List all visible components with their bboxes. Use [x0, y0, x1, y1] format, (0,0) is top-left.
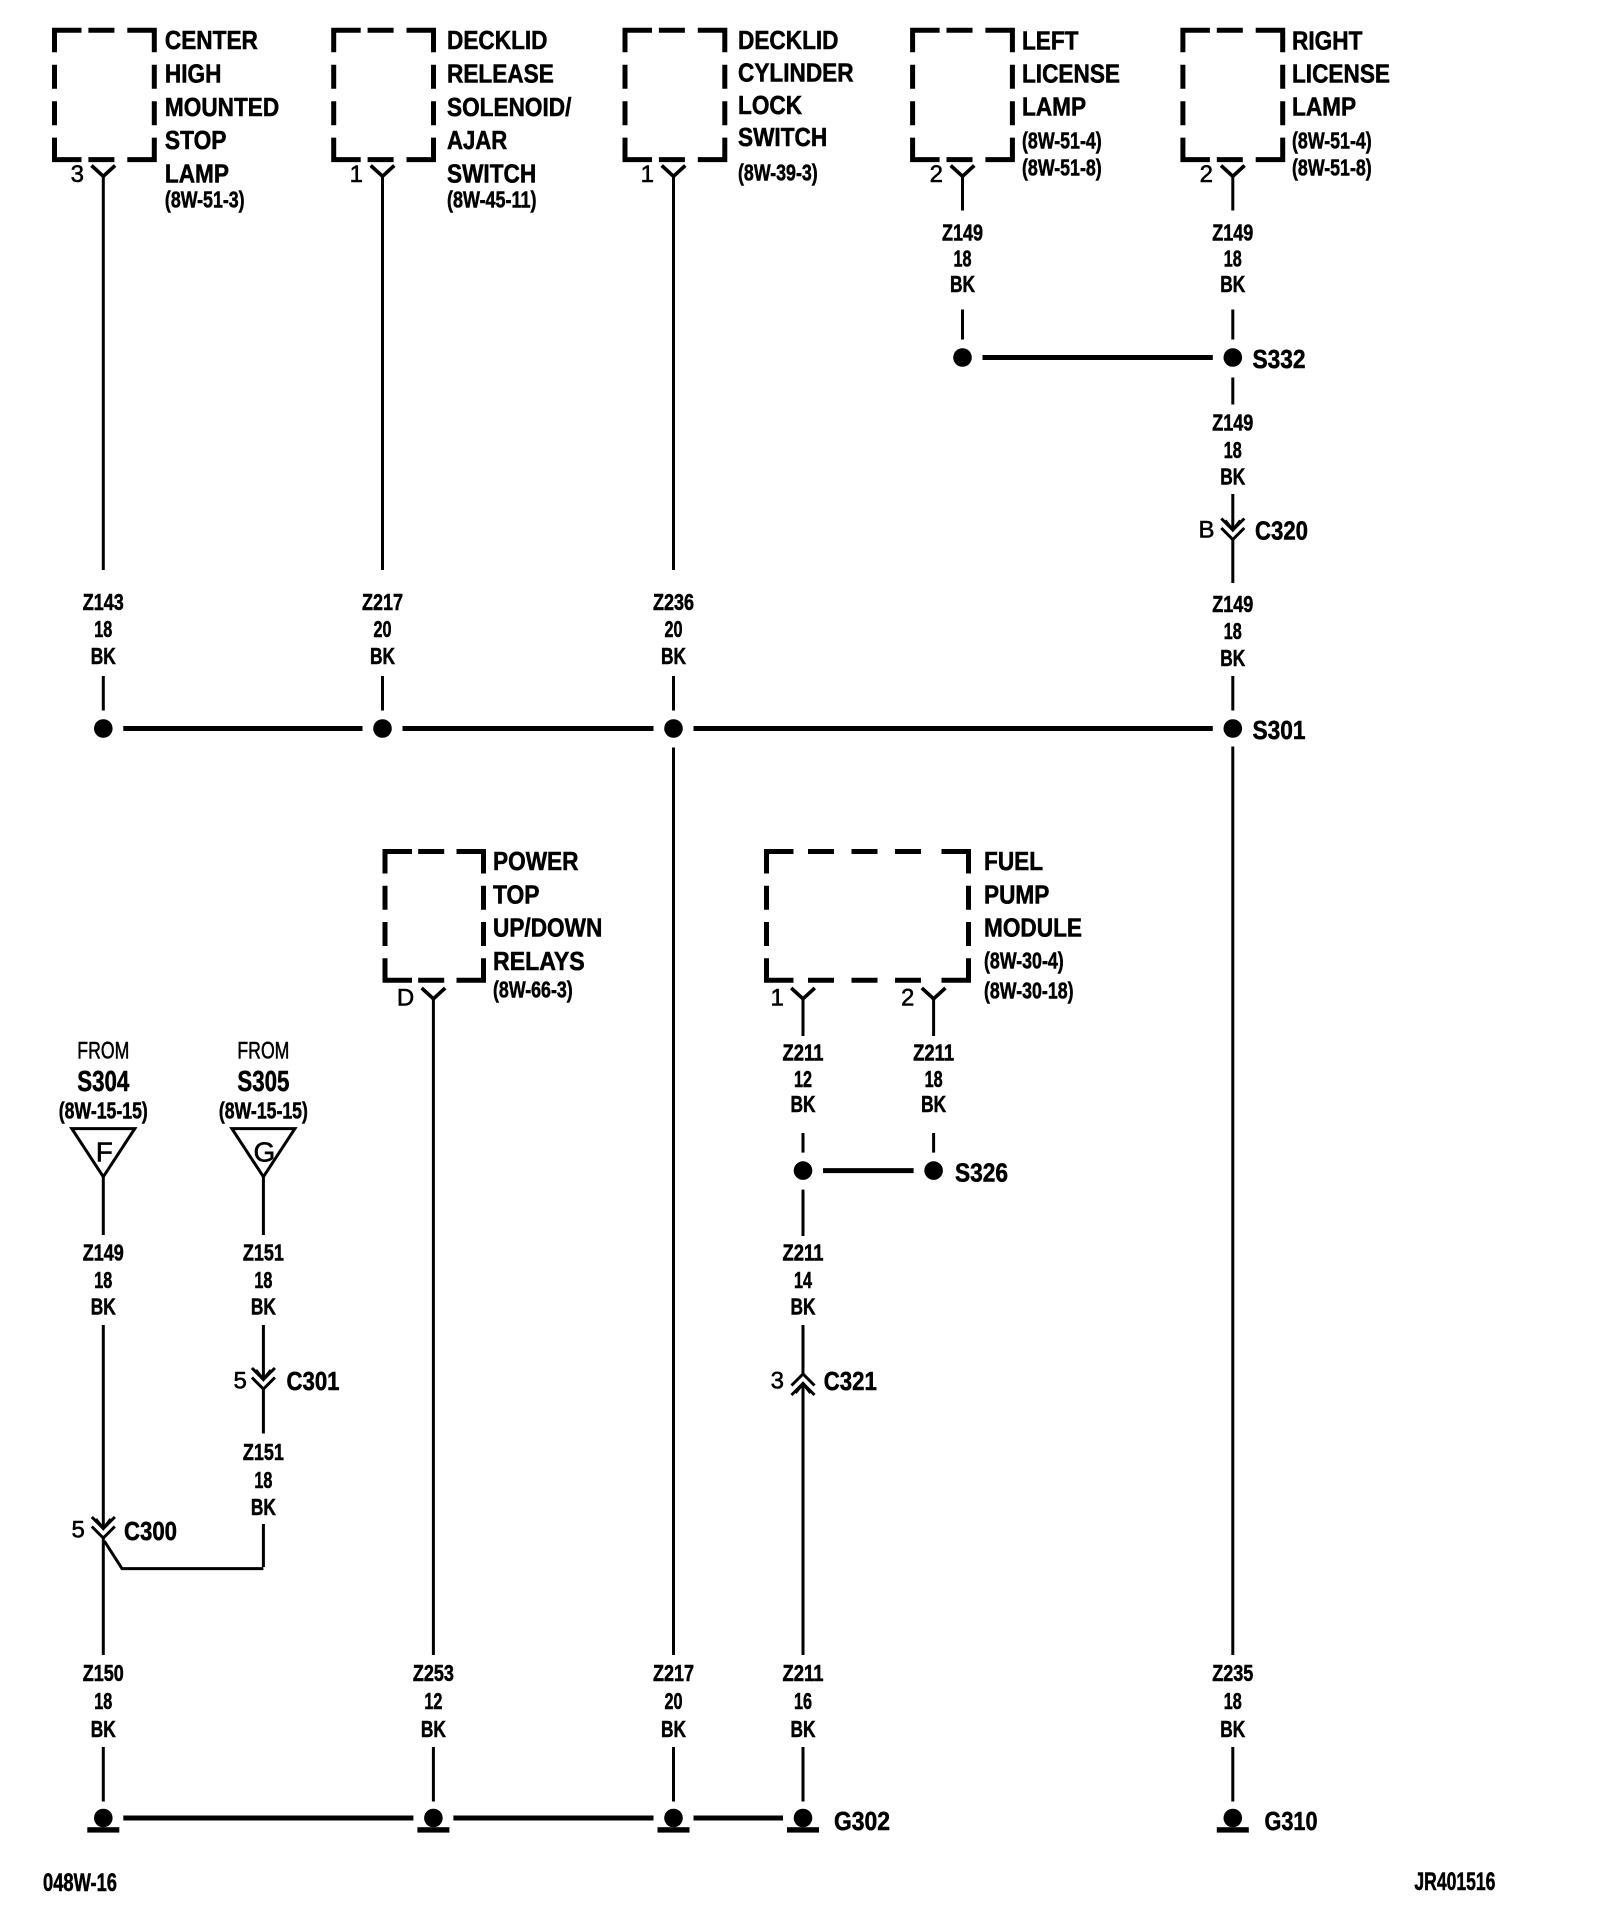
svg-text:(8W-51-8): (8W-51-8)	[1292, 155, 1372, 181]
svg-text:FROM: FROM	[237, 1038, 289, 1065]
svg-text:BK: BK	[661, 1716, 686, 1742]
svg-text:C300: C300	[124, 1516, 177, 1546]
svg-text:LAMP: LAMP	[1022, 92, 1086, 122]
svg-text:18: 18	[94, 616, 112, 642]
ground dot G302 at Z253	[424, 1809, 443, 1828]
ground dot G302 at Z211	[794, 1809, 813, 1828]
svg-text:2: 2	[930, 161, 943, 188]
component box: DECKLID CYLINDER LOCK SWITCH	[625, 30, 725, 159]
svg-text:MODULE: MODULE	[984, 913, 1082, 943]
junction dot S301 at Z217	[373, 719, 392, 738]
svg-text:18: 18	[254, 1467, 272, 1493]
svg-text:LICENSE: LICENSE	[1292, 59, 1390, 89]
svg-text:BK: BK	[1220, 271, 1245, 297]
svg-text:Z151: Z151	[243, 1240, 284, 1266]
svg-text:BK: BK	[791, 1091, 816, 1117]
off-page connector triangle F	[72, 1129, 135, 1177]
svg-text:BK: BK	[661, 643, 686, 669]
svg-text:Z150: Z150	[83, 1660, 124, 1686]
junction dot S301 at Z236	[664, 719, 683, 738]
svg-text:3: 3	[771, 1368, 784, 1395]
svg-text:CENTER: CENTER	[165, 25, 258, 55]
wire Z217 to ground G302	[672, 1747, 675, 1802]
svg-text:PUMP: PUMP	[984, 879, 1049, 909]
component box: RIGHT LICENSE LAMP	[1183, 30, 1283, 159]
svg-text:LAMP: LAMP	[165, 159, 229, 189]
svg-text:DECKLID: DECKLID	[447, 25, 548, 55]
svg-text:S326: S326	[955, 1158, 1008, 1188]
wire Z211 14 below S326	[802, 1190, 805, 1236]
svg-text:Z211: Z211	[783, 1660, 824, 1686]
wire Z211 18 to splice S326	[932, 1133, 935, 1153]
wire Z149 into S301	[1231, 676, 1234, 711]
svg-text:1: 1	[770, 985, 783, 1012]
ground dot G302 at Z150	[94, 1809, 113, 1828]
connector C300	[96, 1519, 111, 1529]
wire Z149 to splice S332 right	[1231, 310, 1234, 340]
svg-text:(8W-51-3): (8W-51-3)	[165, 187, 245, 213]
component box: LEFT LICENSE LAMP	[913, 30, 1013, 159]
svg-text:5: 5	[234, 1368, 247, 1395]
splice bus wire S301 segment 1	[123, 726, 362, 731]
svg-text:Z235: Z235	[1212, 1660, 1253, 1686]
wire Z211 to ground G302	[802, 1747, 805, 1802]
svg-text:18: 18	[1224, 1688, 1242, 1714]
svg-text:Z149: Z149	[1212, 591, 1253, 617]
ground dot G302 at Z217	[664, 1809, 683, 1828]
ground dot G310	[1224, 1809, 1243, 1828]
wire Z211 14 into connector C321	[802, 1325, 805, 1374]
svg-text:Z211: Z211	[913, 1040, 954, 1066]
connector C321	[796, 1384, 811, 1394]
svg-text:SWITCH: SWITCH	[447, 159, 536, 189]
svg-text:HIGH: HIGH	[165, 58, 222, 88]
svg-text:JR401516: JR401516	[1414, 1868, 1495, 1896]
svg-text:BK: BK	[791, 1294, 816, 1320]
wire Z235 below S301 right column	[1231, 747, 1234, 1656]
svg-text:C320: C320	[1255, 516, 1308, 546]
junction dot S301 at Z143	[94, 719, 113, 738]
svg-text:B: B	[1198, 517, 1214, 544]
svg-text:LEFT: LEFT	[1022, 26, 1079, 56]
wire Z217 decklid cylinder branch below S301	[672, 748, 675, 1656]
svg-text:POWER: POWER	[493, 846, 579, 876]
wire Z149 from triangle F	[102, 1177, 105, 1235]
wire Z236 lower segment	[672, 676, 675, 711]
svg-text:G302: G302	[834, 1806, 890, 1836]
ground bus G302 segment 1	[123, 1816, 413, 1821]
svg-text:RELEASE: RELEASE	[447, 58, 554, 88]
svg-text:Z149: Z149	[942, 220, 983, 246]
junction dot at S332 right	[1224, 348, 1243, 367]
svg-text:G: G	[254, 1137, 276, 1168]
svg-text:BK: BK	[1220, 1716, 1245, 1742]
svg-text:UP/DOWN: UP/DOWN	[493, 913, 602, 943]
off-page connector triangle G	[232, 1129, 295, 1177]
component box: FUEL PUMP MODULE	[767, 852, 969, 981]
svg-text:(8W-15-15): (8W-15-15)	[59, 1098, 148, 1124]
junction dot at S332 left	[953, 348, 972, 367]
svg-text:5: 5	[72, 1517, 85, 1544]
svg-text:18: 18	[254, 1267, 272, 1293]
svg-text:(8W-15-15): (8W-15-15)	[219, 1098, 308, 1124]
ground symbol bar at Z211	[787, 1827, 819, 1832]
svg-text:AJAR: AJAR	[447, 125, 507, 155]
wire Z149 from right license lamp pin 2	[1231, 176, 1234, 210]
connector C301	[256, 1370, 271, 1380]
svg-text:S305: S305	[237, 1066, 289, 1098]
svg-text:SOLENOID/: SOLENOID/	[447, 92, 571, 122]
junction dot S301 at Z149	[1224, 719, 1243, 738]
svg-text:G310: G310	[1265, 1806, 1318, 1836]
svg-text:20: 20	[665, 616, 683, 642]
svg-text:(8W-51-4): (8W-51-4)	[1022, 128, 1102, 154]
svg-text:BK: BK	[1220, 464, 1245, 490]
svg-text:(8W-39-3): (8W-39-3)	[738, 160, 818, 186]
svg-text:(8W-30-4): (8W-30-4)	[984, 948, 1064, 974]
svg-text:RELAYS: RELAYS	[493, 946, 585, 976]
svg-text:Z149: Z149	[83, 1240, 124, 1266]
svg-text:BK: BK	[791, 1716, 816, 1742]
svg-text:048W-16: 048W-16	[43, 1869, 117, 1897]
wire Z211 16 below C321	[802, 1384, 805, 1656]
wire Z149 from left license lamp pin 2	[961, 176, 964, 210]
svg-text:C321: C321	[824, 1366, 877, 1396]
svg-text:18: 18	[1224, 618, 1242, 644]
svg-text:LICENSE: LICENSE	[1022, 59, 1120, 89]
splice bus wire S332	[983, 355, 1213, 360]
svg-text:18: 18	[1224, 437, 1242, 463]
ground symbol bar at Z150	[87, 1827, 119, 1832]
svg-text:F: F	[96, 1137, 113, 1168]
wire Z217 lower segment	[381, 676, 384, 711]
svg-text:C301: C301	[287, 1366, 340, 1396]
svg-text:S301: S301	[1253, 715, 1306, 745]
wire Z151 horizontal run to C300	[104, 1541, 263, 1569]
svg-text:S304: S304	[77, 1066, 129, 1098]
ground symbol bar at Z253	[417, 1827, 449, 1832]
svg-text:Z149: Z149	[1212, 410, 1253, 436]
wire Z150 below C300	[102, 1538, 105, 1655]
wire Z149 below S332	[1231, 378, 1234, 405]
svg-text:20: 20	[665, 1688, 683, 1714]
svg-text:MOUNTED: MOUNTED	[165, 92, 279, 122]
svg-text:LOCK: LOCK	[738, 90, 802, 120]
wire Z211 18 from fuel pump pin 2	[932, 999, 935, 1036]
svg-text:Z149: Z149	[1212, 220, 1253, 246]
svg-text:BK: BK	[91, 1294, 116, 1320]
svg-text:BK: BK	[91, 643, 116, 669]
svg-text:BK: BK	[421, 1716, 446, 1742]
wire Z211 12 from fuel pump pin 1	[802, 999, 805, 1036]
svg-text:BK: BK	[91, 1716, 116, 1742]
svg-text:3: 3	[71, 161, 84, 188]
wire Z149 into connector C320	[1231, 494, 1234, 530]
svg-text:CYLINDER: CYLINDER	[738, 58, 854, 88]
component box: DECKLID RELEASE SOLENOID/AJAR SWITCH	[334, 30, 434, 159]
svg-text:(8W-30-18): (8W-30-18)	[984, 978, 1074, 1004]
wire Z149 below C320	[1231, 540, 1234, 584]
svg-text:18: 18	[954, 246, 972, 272]
svg-text:Z236: Z236	[653, 589, 694, 615]
svg-text:Z217: Z217	[653, 1660, 694, 1686]
svg-text:2: 2	[901, 985, 914, 1012]
svg-text:BK: BK	[251, 1294, 276, 1320]
splice bus wire S326	[823, 1168, 914, 1173]
svg-text:Z217: Z217	[362, 589, 403, 615]
svg-text:12: 12	[794, 1066, 812, 1092]
svg-text:D: D	[397, 985, 414, 1012]
svg-text:18: 18	[94, 1688, 112, 1714]
wire Z143 lower segment	[102, 676, 105, 711]
svg-text:Z143: Z143	[83, 589, 124, 615]
svg-text:FUEL: FUEL	[984, 846, 1043, 876]
svg-text:Z211: Z211	[783, 1240, 824, 1266]
svg-text:1: 1	[641, 161, 654, 188]
svg-text:Z211: Z211	[783, 1040, 824, 1066]
svg-text:SWITCH: SWITCH	[738, 122, 827, 152]
ground symbol bar at Z217	[658, 1827, 690, 1832]
wire Z253 from pin D	[432, 999, 435, 1655]
wire Z235 to ground G310	[1231, 1747, 1234, 1802]
svg-text:RIGHT: RIGHT	[1292, 26, 1362, 56]
svg-text:STOP: STOP	[165, 125, 227, 155]
junction dot S326 right	[924, 1161, 943, 1180]
wire Z151 to corner	[262, 1524, 265, 1567]
wire Z149 to splice S332	[961, 310, 964, 340]
svg-text:DECKLID: DECKLID	[738, 25, 839, 55]
svg-text:Z253: Z253	[413, 1660, 454, 1686]
svg-text:16: 16	[794, 1688, 812, 1714]
splice bus wire S301 segment 3	[694, 726, 1213, 731]
svg-text:BK: BK	[950, 271, 975, 297]
component box: POWER TOP UP/DOWN RELAYS	[385, 852, 484, 981]
svg-text:(8W-66-3): (8W-66-3)	[493, 977, 573, 1003]
svg-text:BK: BK	[251, 1494, 276, 1520]
wire Z149 into connector C300	[102, 1325, 105, 1529]
svg-text:18: 18	[925, 1066, 943, 1092]
svg-text:(8W-51-8): (8W-51-8)	[1022, 155, 1102, 181]
junction dot S326 left	[794, 1161, 813, 1180]
svg-text:20: 20	[374, 616, 392, 642]
svg-text:TOP: TOP	[493, 879, 540, 909]
wire Z151 into connector C301	[262, 1325, 265, 1380]
svg-text:LAMP: LAMP	[1292, 92, 1356, 122]
wire Z151 from triangle G	[262, 1177, 265, 1235]
ground bus G302 segment 3	[694, 1816, 784, 1821]
svg-text:(8W-51-4): (8W-51-4)	[1292, 128, 1372, 154]
svg-text:Z151: Z151	[243, 1439, 284, 1465]
connector C320	[1225, 521, 1240, 531]
wire Z211 12 to splice S326	[802, 1133, 805, 1153]
ground symbol bar G310	[1217, 1827, 1249, 1832]
svg-text:(8W-45-11): (8W-45-11)	[447, 187, 537, 213]
svg-text:BK: BK	[921, 1091, 946, 1117]
splice bus wire S301 segment 2	[403, 726, 654, 731]
wire Z253 to ground G302	[432, 1747, 435, 1802]
wire Z150 to ground G302	[102, 1747, 105, 1802]
svg-text:S332: S332	[1253, 344, 1306, 374]
svg-text:1: 1	[350, 161, 363, 188]
ground bus G302 segment 2	[453, 1816, 653, 1821]
wire Z143 from stop lamp pin 3	[102, 176, 105, 570]
svg-text:18: 18	[1224, 246, 1242, 272]
svg-text:BK: BK	[370, 643, 395, 669]
svg-text:12: 12	[424, 1688, 442, 1714]
svg-text:BK: BK	[1220, 645, 1245, 671]
wire Z151 below C301	[262, 1389, 265, 1434]
svg-text:18: 18	[94, 1267, 112, 1293]
wire Z217 from decklid release pin 1	[381, 176, 384, 570]
wire Z236 from decklid cylinder pin 1	[672, 176, 675, 570]
svg-text:FROM: FROM	[77, 1038, 129, 1065]
component box: CENTER HIGH MOUNTED STOP LAMP	[55, 30, 155, 159]
svg-text:2: 2	[1200, 161, 1213, 188]
svg-text:14: 14	[794, 1267, 812, 1293]
